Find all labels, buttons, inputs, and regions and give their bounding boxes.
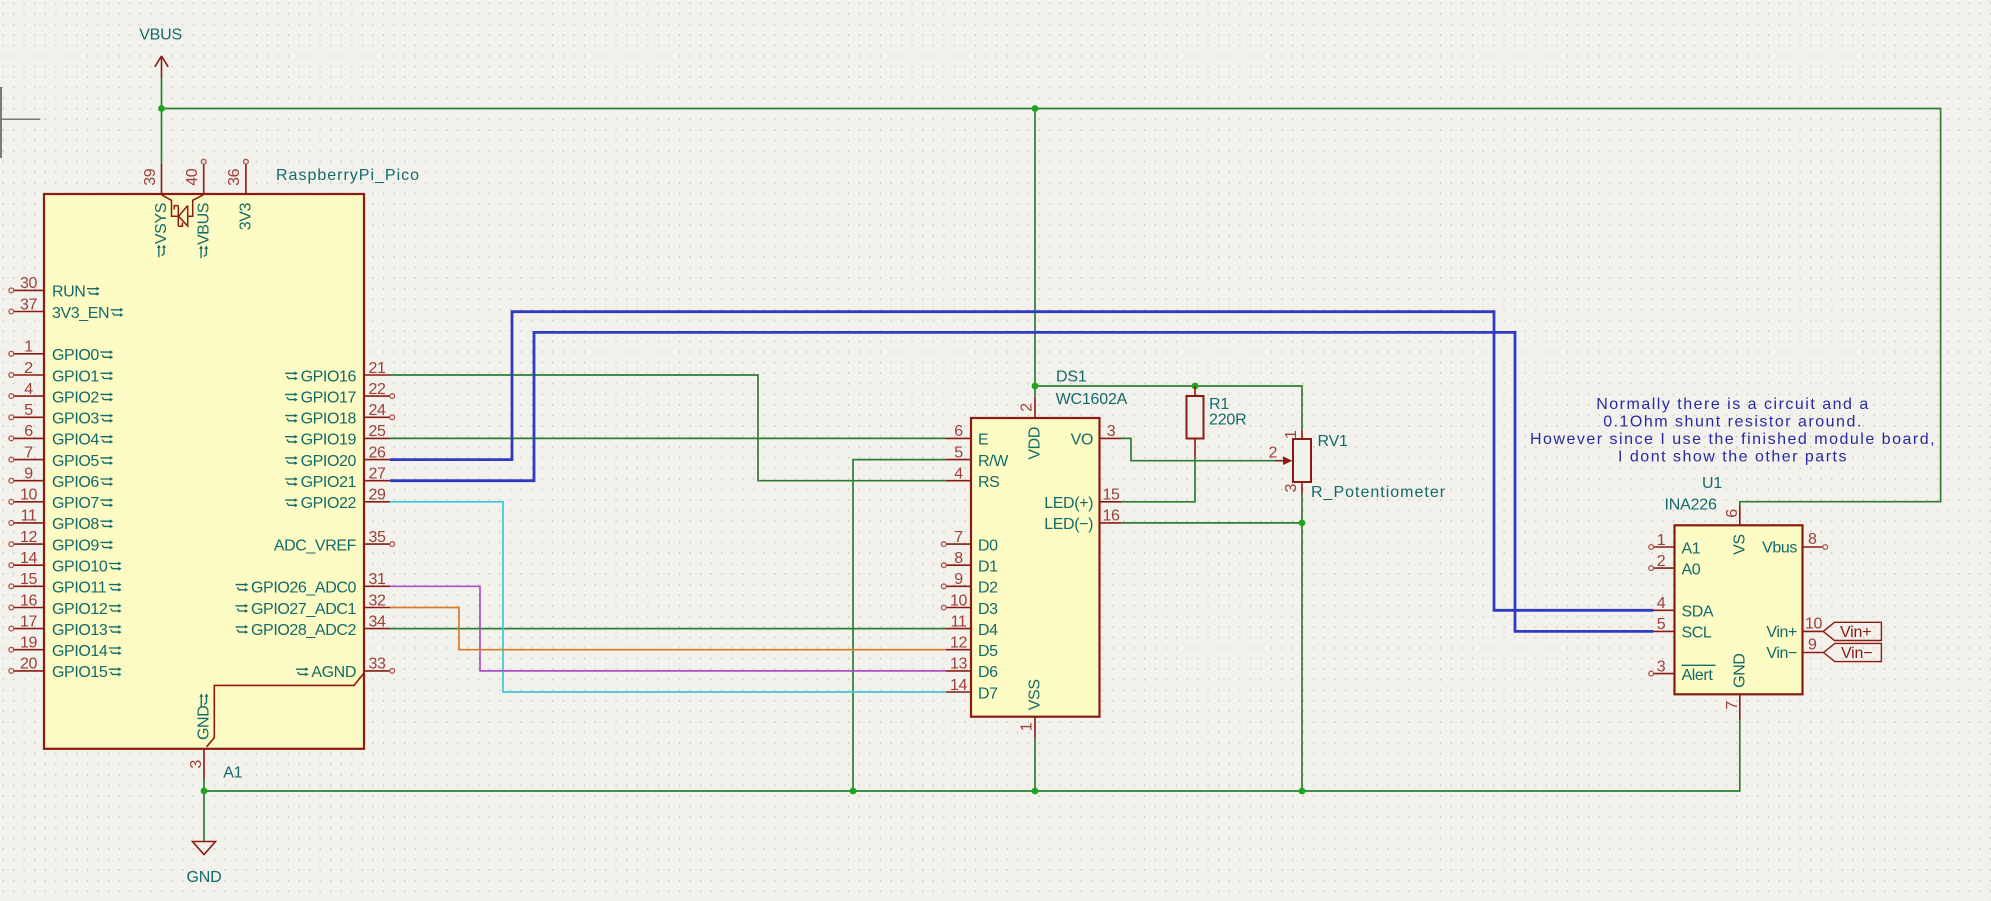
- svg-text:24: 24: [369, 402, 386, 419]
- wire VBUS branch to DS1 VDD: [1034, 109, 1036, 398]
- svg-text:D4: D4: [978, 622, 998, 639]
- svg-text:GND: GND: [187, 869, 222, 886]
- pin 14 GPIO10 of A1: [9, 550, 122, 576]
- pin 6 GPIO4 of A1: [9, 423, 113, 449]
- pin 6 VS of U1: [1724, 506, 1748, 555]
- junction R1 top: [1192, 383, 1199, 390]
- svg-text:30: 30: [20, 275, 37, 292]
- wire GPIO28_ADC2 to DS1 D4: [390, 628, 946, 630]
- svg-text:35: 35: [369, 529, 386, 546]
- svg-text:13: 13: [950, 656, 967, 673]
- svg-text:GPIO17: GPIO17: [301, 389, 357, 406]
- wire VBUS rail to U1 VS: [162, 109, 1941, 507]
- svg-text:Vin+: Vin+: [1840, 624, 1871, 641]
- pin 8 D1 of DS1: [941, 550, 998, 576]
- svg-text:R_Potentiometer: R_Potentiometer: [1311, 484, 1446, 501]
- svg-text:GPIO27_ADC1: GPIO27_ADC1: [251, 601, 356, 618]
- pin 5 SCL of U1: [1653, 616, 1712, 642]
- svg-text:GPIO20: GPIO20: [301, 453, 357, 470]
- svg-text:8: 8: [1808, 531, 1817, 548]
- svg-text:37: 37: [20, 296, 37, 313]
- wire VBUS stem: [161, 78, 163, 109]
- svg-text:7: 7: [954, 529, 963, 546]
- MCU A1 RaspberryPi_Pico body: [44, 194, 364, 749]
- svg-text:2: 2: [1019, 403, 1036, 412]
- pin 35 ADC_VREF of A1: [274, 529, 395, 555]
- wire GPIO19 to DS1 E: [390, 437, 946, 439]
- svg-text:14: 14: [20, 550, 37, 567]
- pin 1 of RV1: [1283, 430, 1302, 439]
- svg-text:D3: D3: [978, 601, 998, 618]
- hierarchical label Vin+: [1823, 622, 1881, 641]
- svg-text:11: 11: [21, 508, 37, 525]
- IC U1 INA226 body: [1675, 525, 1803, 694]
- svg-text:GPIO5: GPIO5: [52, 453, 99, 470]
- svg-text:RUN: RUN: [52, 284, 85, 301]
- pin 26 GPIO20 of A1: [285, 444, 390, 470]
- pin 4 RS of DS1: [946, 466, 999, 492]
- svg-text:19: 19: [20, 635, 37, 652]
- potentiometer RV1 body: [1293, 439, 1311, 482]
- pin 27 GPIO21 of A1: [285, 466, 390, 492]
- svg-text:GPIO21: GPIO21: [301, 474, 357, 491]
- svg-text:16: 16: [1103, 508, 1120, 525]
- svg-text:VSYS: VSYS: [153, 203, 170, 244]
- pin 32 GPIO27_ADC1 of A1: [236, 592, 391, 618]
- pin 40 VBUS of A1: [184, 159, 212, 258]
- pin 11 GPIO8 of A1: [9, 508, 113, 534]
- svg-text:GPIO28_ADC2: GPIO28_ADC2: [251, 622, 356, 639]
- svg-text:A0: A0: [1682, 561, 1701, 578]
- internal schottky diode of A1: [162, 195, 204, 227]
- svg-text:GPIO18: GPIO18: [301, 411, 357, 428]
- svg-text:Normally there is a circuit an: Normally there is a circuit and a: [1596, 396, 1870, 413]
- svg-text:1: 1: [1657, 532, 1666, 549]
- svg-text:RV1: RV1: [1318, 433, 1349, 450]
- pin 2 GPIO1 of A1: [9, 360, 113, 386]
- pin 2 A0 of U1: [1649, 553, 1701, 579]
- pin 12 D5 of DS1: [946, 635, 998, 661]
- pin 1 GPIO0 of A1: [9, 339, 113, 365]
- svg-text:GPIO8: GPIO8: [52, 516, 99, 533]
- svg-text:I dont show the other parts: I dont show the other parts: [1618, 449, 1848, 466]
- junction VBUS rail VDD branch: [1032, 105, 1039, 112]
- junction RV1 net at GND rail: [1299, 788, 1306, 795]
- svg-text:GPIO19: GPIO19: [301, 432, 357, 449]
- svg-text:SCL: SCL: [1682, 625, 1712, 642]
- wire DS1 VSS to GND rail: [1034, 738, 1036, 792]
- svg-text:3: 3: [1107, 423, 1116, 440]
- svg-text:5: 5: [954, 444, 963, 461]
- svg-text:7: 7: [24, 444, 33, 461]
- svg-text:10: 10: [20, 487, 37, 504]
- svg-text:ADC_VREF: ADC_VREF: [274, 537, 357, 554]
- bus wire GPIO20 to U1 SDA: [390, 312, 1653, 611]
- svg-text:6: 6: [954, 423, 963, 440]
- pin 13 D6 of DS1: [946, 656, 998, 682]
- svg-text:11: 11: [951, 613, 967, 630]
- svg-text:1: 1: [24, 339, 33, 356]
- svg-text:7: 7: [1724, 701, 1741, 710]
- svg-text:8: 8: [954, 550, 963, 567]
- svg-text:5: 5: [24, 402, 33, 419]
- svg-text:220R: 220R: [1209, 411, 1246, 428]
- pin 6 E of DS1: [946, 423, 988, 449]
- wire A1 GND pin to ground symbol: [203, 779, 205, 841]
- svg-text:6: 6: [1724, 509, 1741, 518]
- svg-text:3: 3: [188, 760, 205, 769]
- svg-text:6: 6: [24, 423, 33, 440]
- LCD DS1 WC1602A body: [971, 418, 1100, 717]
- svg-text:15: 15: [20, 571, 37, 588]
- svg-text:1: 1: [1019, 722, 1036, 731]
- svg-text:GPIO11: GPIO11: [52, 580, 107, 597]
- svg-text:GPIO3: GPIO3: [52, 411, 99, 428]
- svg-text:Vin−: Vin−: [1841, 645, 1872, 662]
- svg-text:INA226: INA226: [1665, 497, 1717, 514]
- svg-text:4: 4: [1657, 595, 1666, 612]
- wire GND rail horizontal: [204, 720, 1740, 792]
- svg-text:GPIO10: GPIO10: [52, 559, 108, 576]
- pin 14 D7 of DS1: [946, 677, 998, 703]
- pin 16 GPIO12 of A1: [9, 592, 122, 618]
- pin 16 LED(−) of DS1: [1044, 508, 1121, 534]
- svg-text:VBUS: VBUS: [195, 203, 212, 245]
- wire RV1 pin 3 down to GND rail: [1301, 494, 1303, 791]
- pin 7 D0 of DS1: [941, 529, 998, 555]
- svg-text:D6: D6: [978, 664, 998, 681]
- pin 2 of R1: [1194, 439, 1196, 459]
- svg-text:GPIO1: GPIO1: [52, 368, 99, 385]
- pin 22 GPIO17 of A1: [285, 381, 395, 407]
- pin 3 of RV1: [1283, 482, 1302, 494]
- wire R1 to DS1 LED(+): [1121, 458, 1195, 502]
- svg-text:A1: A1: [223, 765, 242, 782]
- wire DS1 R/W to GND rail: [853, 460, 946, 791]
- svg-text:2: 2: [24, 360, 33, 377]
- svg-text:14: 14: [950, 677, 967, 694]
- junction VDD node: [1032, 383, 1039, 390]
- wire DS1 LED(-) to RV1 pin 3: [1121, 522, 1302, 524]
- pin 20 GPIO15 of A1: [9, 656, 122, 682]
- svg-text:A1: A1: [1682, 540, 1701, 557]
- power symbol VBUS: [139, 27, 182, 78]
- wire VBUS junction to pin 39 VSYS: [161, 109, 163, 165]
- wire GPIO27_ADC1 to DS1 D5 orange: [390, 608, 946, 650]
- pin 1 A1 of U1: [1649, 532, 1701, 558]
- svg-text:D0: D0: [978, 537, 998, 554]
- svg-text:VSS: VSS: [1027, 679, 1044, 710]
- pin 10 GPIO7 of A1: [9, 487, 113, 512]
- svg-text:RaspberryPi_Pico: RaspberryPi_Pico: [276, 167, 420, 184]
- svg-text:3: 3: [1283, 484, 1300, 493]
- svg-text:GPIO15: GPIO15: [52, 664, 108, 681]
- svg-text:3V3: 3V3: [238, 202, 255, 230]
- svg-text:21: 21: [369, 360, 386, 377]
- svg-text:27: 27: [369, 466, 386, 483]
- junction LED(-) RV1 pin 3: [1299, 520, 1306, 527]
- svg-text:LED(+): LED(+): [1044, 495, 1093, 512]
- pin 9 GPIO6 of A1: [9, 466, 113, 492]
- pin 33 AGND of A1: [296, 656, 395, 682]
- pin 39 VSYS of A1: [142, 164, 170, 257]
- svg-text:26: 26: [369, 444, 386, 461]
- svg-text:GPIO0: GPIO0: [52, 347, 99, 364]
- svg-text:Vin+: Vin+: [1766, 624, 1797, 641]
- junction A1 GND at rail: [201, 788, 208, 795]
- svg-text:34: 34: [369, 613, 386, 630]
- svg-text:17: 17: [20, 613, 37, 630]
- pin 24 GPIO18 of A1: [285, 402, 395, 428]
- svg-text:D5: D5: [978, 643, 998, 660]
- text note about shunt resistor: [1530, 396, 1936, 466]
- svg-text:10: 10: [950, 592, 967, 609]
- wire GPIO26_ADC0 to DS1 D6 violet: [390, 586, 946, 671]
- junction DS1 VSS at GND rail: [1032, 788, 1039, 795]
- pin 15 LED(+) of DS1: [1044, 487, 1121, 512]
- svg-text:GND: GND: [1731, 653, 1748, 687]
- internal GND bus line of A1: [207, 673, 364, 747]
- svg-text:1: 1: [1283, 430, 1300, 439]
- svg-text:36: 36: [226, 168, 243, 185]
- svg-text:GND: GND: [196, 706, 213, 740]
- svg-text:25: 25: [369, 423, 386, 440]
- svg-text:2: 2: [1269, 445, 1278, 462]
- pin 4 GPIO2 of A1: [9, 381, 113, 407]
- svg-text:4: 4: [24, 381, 33, 398]
- svg-text:GPIO16: GPIO16: [301, 368, 357, 385]
- pin 21 GPIO16 of A1: [285, 360, 390, 386]
- pin 3 GND of A1: [188, 749, 205, 779]
- svg-text:12: 12: [950, 635, 967, 652]
- svg-text:9: 9: [954, 571, 963, 588]
- svg-text:32: 32: [369, 592, 386, 609]
- pin 1 of R1: [1194, 386, 1196, 396]
- pin 9 Vin- of U1: [1766, 637, 1823, 662]
- pin 15 GPIO11 of A1: [9, 571, 122, 597]
- pin 36 3V3 of A1: [226, 159, 254, 230]
- pin 9 D2 of DS1: [941, 571, 998, 597]
- svg-text:U1: U1: [1702, 475, 1722, 492]
- svg-text:Vbus: Vbus: [1762, 540, 1797, 557]
- svg-text:D2: D2: [978, 580, 998, 597]
- svg-text:Alert: Alert: [1682, 667, 1714, 684]
- pin 25 GPIO19 of A1: [285, 423, 390, 449]
- svg-text:40: 40: [184, 168, 201, 185]
- junction VBUS stem at rail: [158, 105, 165, 112]
- svg-text:GPIO6: GPIO6: [52, 474, 99, 491]
- pin 5 R/W of DS1: [946, 444, 1009, 470]
- svg-text:12: 12: [20, 529, 37, 546]
- svg-text:GPIO7: GPIO7: [52, 495, 99, 512]
- pin 3 VO of DS1: [1071, 423, 1121, 449]
- pin 31 GPIO26_ADC0 of A1: [236, 571, 391, 597]
- svg-text:R/W: R/W: [978, 453, 1009, 470]
- svg-text:GPIO9: GPIO9: [52, 537, 99, 554]
- pin 10 Vin+ of U1: [1766, 616, 1823, 641]
- svg-text:However since I use the finish: However since I use the finished module …: [1530, 431, 1936, 448]
- svg-text:VBUS: VBUS: [139, 27, 182, 44]
- svg-text:16: 16: [20, 592, 37, 609]
- pin 1 VSS of DS1: [1019, 679, 1044, 737]
- pin 4 SDA of U1: [1653, 595, 1714, 621]
- resistor R1 body: [1187, 396, 1204, 439]
- pin 10 D3 of DS1: [941, 592, 998, 618]
- pin 19 GPIO14 of A1: [9, 635, 122, 661]
- svg-text:GPIO4: GPIO4: [52, 432, 99, 449]
- wire VDD node to R1 and RV1 pin 1: [1035, 386, 1302, 431]
- svg-text:0.1Ohm shunt resistor around.: 0.1Ohm shunt resistor around.: [1603, 414, 1863, 431]
- pin 2 wiper of RV1: [1269, 445, 1293, 465]
- svg-text:22: 22: [369, 381, 386, 398]
- wire GPIO16 to DS1 RS: [390, 375, 946, 481]
- svg-text:GPIO22: GPIO22: [301, 495, 357, 512]
- svg-text:GPIO14: GPIO14: [52, 643, 108, 660]
- pin 2 VDD of DS1: [1019, 398, 1044, 460]
- svg-text:Vin−: Vin−: [1766, 645, 1797, 662]
- pin 3 Alert of U1: [1649, 658, 1716, 684]
- svg-text:E: E: [978, 432, 988, 449]
- svg-text:VO: VO: [1071, 432, 1093, 449]
- bus wire GPIO21 to U1 SCL: [390, 332, 1653, 631]
- svg-text:3V3_EN: 3V3_EN: [52, 305, 109, 322]
- pin 17 GPIO13 of A1: [9, 613, 122, 639]
- pin 29 GPIO22 of A1: [285, 487, 390, 512]
- svg-text:RS: RS: [978, 474, 999, 491]
- pin 5 GPIO3 of A1: [9, 402, 113, 428]
- svg-text:GPIO2: GPIO2: [52, 389, 99, 406]
- pin 8 Vbus of U1: [1762, 531, 1827, 556]
- svg-text:20: 20: [20, 656, 37, 673]
- pin 7 GND of U1: [1724, 653, 1748, 719]
- svg-text:LED(−): LED(−): [1044, 516, 1093, 533]
- svg-text:AGND: AGND: [311, 664, 356, 681]
- hierarchical label Vin-: [1824, 643, 1882, 662]
- svg-text:2: 2: [1657, 553, 1666, 570]
- svg-text:39: 39: [142, 168, 159, 185]
- pin 11 D4 of DS1: [946, 613, 998, 639]
- svg-text:5: 5: [1657, 616, 1666, 633]
- svg-text:DS1: DS1: [1056, 369, 1087, 386]
- svg-text:GPIO26_ADC0: GPIO26_ADC0: [251, 580, 356, 597]
- junction R/W net at GND rail: [850, 788, 857, 795]
- svg-text:VS: VS: [1731, 534, 1748, 555]
- svg-text:D7: D7: [978, 685, 998, 702]
- svg-text:VDD: VDD: [1027, 427, 1044, 460]
- pin 12 GPIO9 of A1: [9, 529, 113, 555]
- pin 37 3V3_EN of A1: [9, 296, 124, 322]
- svg-text:10: 10: [1805, 616, 1822, 633]
- sheet frame fragment left edge: [0, 87, 40, 158]
- pin name GND of A1: [196, 694, 213, 741]
- svg-text:15: 15: [1103, 487, 1120, 504]
- pin 7 GPIO5 of A1: [9, 444, 113, 470]
- pin 30 RUN of A1: [9, 275, 100, 301]
- svg-text:31: 31: [369, 571, 386, 588]
- pin 34 GPIO28_ADC2 of A1: [236, 613, 391, 639]
- svg-text:4: 4: [954, 466, 963, 483]
- ground symbol GND: [187, 842, 222, 887]
- svg-text:D1: D1: [978, 559, 998, 576]
- svg-text:GPIO13: GPIO13: [52, 622, 108, 639]
- svg-text:33: 33: [369, 656, 386, 673]
- svg-text:9: 9: [1808, 637, 1817, 654]
- svg-text:WC1602A: WC1602A: [1056, 391, 1128, 408]
- svg-text:GPIO12: GPIO12: [52, 601, 108, 618]
- svg-text:9: 9: [24, 466, 33, 483]
- wire DS1 VO to RV1 wiper: [1121, 438, 1275, 460]
- svg-text:29: 29: [369, 487, 386, 504]
- svg-text:SDA: SDA: [1682, 604, 1714, 621]
- svg-text:3: 3: [1657, 658, 1666, 675]
- wire GPIO22 to DS1 D7 cyan: [390, 502, 946, 692]
